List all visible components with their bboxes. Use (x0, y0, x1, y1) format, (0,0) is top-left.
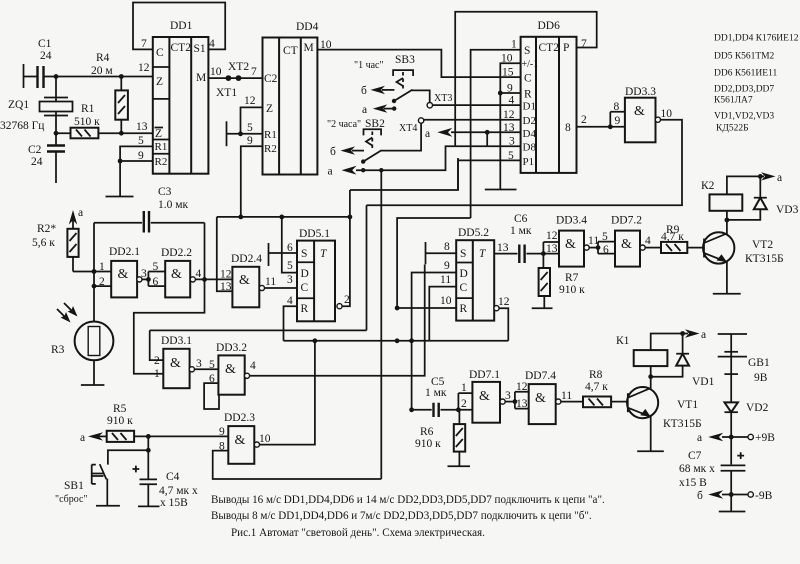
svg-text:5,6 к: 5,6 к (32, 237, 55, 249)
NAND gate DD7.1 inputs tied (456, 369, 500, 423)
svg-text:9: 9 (219, 426, 225, 438)
SB3 common wire to XT3 (412, 90, 430, 102)
DD1 label and feedback loop pin7-pin4 (133, 3, 225, 51)
DD4 Z pin 12 wire (241, 107, 263, 133)
svg-text:"1 час": "1 час" (354, 60, 384, 71)
XT4 to DD6 D2 wire (424, 119, 521, 121)
DD2.3 input 8 wire from long y479 line (213, 451, 382, 479)
svg-text:DD2,DD3,DD7: DD2,DD3,DD7 (714, 85, 774, 95)
DD5.1 output 2 wire up to H1 (337, 190, 350, 309)
svg-text:11: 11 (561, 390, 572, 402)
svg-text:КД522Б: КД522Б (716, 124, 749, 134)
svg-text:&: & (235, 433, 246, 448)
ground under VT1 (637, 450, 664, 452)
DD3.4 output to DD7.2 (584, 235, 600, 250)
svg-text:1: 1 (99, 261, 105, 273)
wire from y341 down to C5 node (409, 341, 414, 412)
svg-text:S: S (460, 248, 466, 260)
svg-text:R1: R1 (264, 129, 277, 141)
resistor R2* 5.6k with net a arrow (32, 207, 83, 272)
svg-text:4: 4 (196, 268, 202, 280)
svg-text:9: 9 (247, 135, 253, 147)
svg-text:D: D (460, 268, 468, 280)
svg-text:C6: C6 (514, 213, 528, 225)
svg-text:4: 4 (645, 235, 651, 247)
svg-text:C2: C2 (264, 73, 278, 85)
ground under R7 (532, 307, 553, 309)
svg-text:1: 1 (461, 382, 467, 394)
IC DD4 K176IE12 (244, 21, 319, 175)
svg-text:R1: R1 (155, 141, 168, 153)
svg-text:&: & (479, 389, 490, 404)
DD1 pin 13 wire label (136, 121, 148, 133)
svg-text:1 мк: 1 мк (425, 387, 447, 399)
relay K2 (701, 176, 760, 222)
svg-text:13: 13 (516, 398, 528, 410)
svg-text:DD5 К561ТМ2: DD5 К561ТМ2 (714, 52, 775, 62)
R5 net a arrow (80, 432, 107, 444)
diode VD1 (651, 334, 715, 389)
svg-text:SB2: SB2 (365, 118, 385, 130)
svg-text:DD3.4: DD3.4 (556, 215, 587, 227)
net wire from a line down to DD2.3 pin8 line (379, 168, 383, 479)
bottom rail end bar (719, 495, 746, 512)
svg-text:VT2: VT2 (752, 239, 773, 251)
svg-text:VT1: VT1 (677, 399, 698, 411)
terminal XT4 (399, 118, 424, 134)
svg-text:К2: К2 (701, 180, 715, 192)
svg-text:910 к: 910 к (559, 284, 585, 296)
NAND gate DD2.1 (73, 246, 140, 297)
SB3 terminal a arrow (362, 104, 396, 116)
svg-text:12: 12 (220, 269, 232, 281)
svg-text:4: 4 (250, 360, 256, 372)
NAND gate DD2.3 (219, 412, 255, 464)
svg-text:XT1: XT1 (216, 87, 237, 99)
ground under R3 (81, 384, 105, 386)
svg-text:R: R (524, 89, 532, 101)
svg-text:DD5.1: DD5.1 (299, 228, 330, 240)
wire C3-DD2.2out down to DD3.1 input 1 (134, 223, 205, 374)
svg-text:CT2: CT2 (539, 42, 560, 54)
svg-text:1: 1 (154, 368, 160, 380)
svg-text:Рис.1 Автомат "световой день".: Рис.1 Автомат "световой день". Схема эле… (231, 527, 485, 539)
IC DD1 K176IE12 (153, 37, 209, 174)
svg-text:-9В: -9В (755, 490, 773, 502)
capacitor C5 1uF (412, 376, 459, 417)
svg-text:1.0 мк: 1.0 мк (158, 199, 189, 211)
svg-text:4: 4 (209, 38, 215, 50)
DD6 output 8 wire to DD3.3 (577, 112, 625, 129)
svg-text:2: 2 (99, 276, 105, 288)
svg-text:5: 5 (209, 359, 215, 371)
DD6 D8 pin 3 wire (455, 145, 521, 147)
svg-text:SB3: SB3 (395, 54, 415, 66)
svg-text:DD1: DD1 (170, 20, 193, 32)
svg-text:R2: R2 (155, 156, 168, 168)
svg-text:13: 13 (546, 243, 558, 255)
svg-text:4,7 к: 4,7 к (661, 231, 684, 243)
svg-text:7: 7 (141, 38, 147, 50)
svg-text:К561ЛА7: К561ЛА7 (714, 96, 753, 106)
svg-text:R5: R5 (113, 403, 127, 415)
svg-text:5: 5 (287, 260, 293, 272)
svg-text:C: C (460, 282, 468, 294)
pushbutton SB3 "1 час" (354, 54, 415, 103)
svg-text:CT2: CT2 (171, 42, 192, 54)
DD2.4 output to DD5.1 C (259, 276, 297, 291)
svg-text:SB1: SB1 (64, 480, 84, 492)
capacitor C6 1uF (510, 213, 543, 263)
svg-text:5: 5 (247, 122, 253, 134)
svg-text:&: & (535, 391, 546, 406)
svg-text:12: 12 (244, 95, 256, 107)
NAND gate DD2.4 (220, 253, 262, 307)
svg-text:DD3.3: DD3.3 (625, 86, 656, 98)
DD6 P1 pin 5 wire (458, 160, 521, 190)
svg-text:9В: 9В (754, 372, 768, 384)
svg-text:а: а (777, 172, 782, 184)
ground under C4 (138, 505, 160, 507)
svg-text:DD6 К561ИЕ11: DD6 К561ИЕ11 (714, 69, 777, 79)
svg-text:&: & (171, 267, 182, 282)
svg-text:7: 7 (251, 66, 257, 78)
svg-text:Z: Z (156, 76, 163, 88)
svg-text:10: 10 (320, 39, 332, 51)
svg-text:2: 2 (344, 294, 350, 306)
svg-text:4: 4 (287, 295, 293, 307)
svg-text:Выводы 16 м/с DD1,DD4,DD6 и 14: Выводы 16 м/с DD1,DD4,DD6 и 14 м/с DD2,D… (211, 494, 605, 506)
DD5.2 S pin 8 stub terminal (426, 242, 457, 264)
svg-text:+9В: +9В (755, 432, 775, 444)
svg-text:х15 В: х15 В (679, 477, 707, 489)
terminal XT3 (427, 93, 452, 108)
svg-text:C: C (156, 47, 164, 59)
DD2.4 input 13 wire from node A line (217, 217, 233, 291)
svg-text:&: & (170, 356, 181, 371)
svg-text:11: 11 (265, 276, 276, 288)
svg-text:2: 2 (581, 114, 587, 126)
svg-text:13: 13 (136, 121, 148, 133)
pushbutton SB1 сброс (55, 448, 151, 506)
DD5.2 output 13 to C6 (494, 242, 517, 254)
svg-text:8: 8 (565, 122, 571, 134)
svg-text:DD2.2: DD2.2 (161, 247, 192, 259)
DD6 P output loop to D8 line (455, 12, 597, 147)
parts list text block (714, 34, 799, 134)
svg-text:а: а (425, 128, 430, 140)
svg-text:&: & (565, 237, 576, 252)
svg-text:R3: R3 (51, 344, 65, 356)
IC DD6 K561IE11 (501, 20, 587, 173)
terminal XT1 (216, 75, 241, 99)
wire DD3.3out H2 down to y330 line (366, 205, 368, 330)
svg-text:DD4: DD4 (296, 21, 319, 33)
ground under VT2 (713, 293, 741, 295)
svg-text:4: 4 (509, 95, 515, 107)
C3 left wire down to DD2.1 input node (92, 223, 97, 322)
capacitor C4 4.7uF electrolytic (133, 436, 198, 509)
transistor VT1 KT315B (627, 377, 702, 452)
svg-text:ХТ3: ХТ3 (434, 93, 452, 104)
DD5.2 output 12 wire to y341 line (494, 296, 510, 341)
relay K1 (616, 334, 683, 380)
DD7.2 output to R9 (640, 235, 661, 250)
resistor R9 4.7k (661, 224, 704, 253)
caption text (211, 494, 605, 539)
DD6 +/-1 and R pins to ground (498, 63, 521, 189)
ground under DD6 (485, 189, 517, 191)
svg-text:х 15В: х 15В (160, 497, 188, 509)
svg-text:VD2: VD2 (746, 402, 769, 414)
svg-text:1 мк: 1 мк (510, 225, 532, 237)
XT4 down wire to SB2 common (381, 123, 421, 150)
svg-text:&: & (239, 273, 250, 288)
node A horizontal line (217, 215, 352, 220)
NAND gate DD7.2 inputs tied (598, 215, 642, 267)
NAND gate DD2.2 inputs tied (148, 247, 192, 297)
DD6 D4 to D8 tie wire (486, 132, 488, 146)
DD1 M output pin 10 wire with XT2 XT1 jumper (208, 66, 263, 78)
svg-text:DD7.2: DD7.2 (611, 215, 642, 227)
DD7.1 output to DD7.4 (500, 390, 517, 404)
svg-text:б: б (697, 490, 703, 502)
resistor R5 910k (107, 403, 134, 442)
svg-text:б: б (361, 85, 367, 97)
svg-text:C3: C3 (158, 186, 172, 198)
DD4 R1 pin 5 wire and stub terminal (227, 121, 263, 146)
svg-text:DD2.1: DD2.1 (109, 246, 140, 258)
svg-text:3: 3 (141, 268, 147, 280)
R5 to DD2.3 pin9 wire (134, 434, 228, 439)
svg-text:12: 12 (546, 230, 558, 242)
svg-text:К1: К1 (616, 335, 630, 347)
svg-text:+/-1: +/-1 (522, 59, 539, 70)
XT3 to DD6 D1 wire (433, 104, 521, 106)
svg-text:DD3.1: DD3.1 (161, 335, 192, 347)
svg-text:&: & (634, 104, 645, 119)
terminal -9V with net b arrow (697, 490, 773, 502)
DD1 pins 5,9 reset wires to ground (118, 135, 153, 196)
resistor R7 910k (539, 254, 586, 309)
svg-text:а: а (78, 207, 83, 219)
diode VD2 (725, 402, 769, 437)
SB3 terminal b arrow (361, 85, 394, 97)
ground under DD1 (106, 196, 134, 198)
svg-text:D8: D8 (523, 142, 537, 154)
resistor R6 910k (415, 410, 465, 467)
svg-text:4,7 мк х: 4,7 мк х (159, 485, 198, 497)
DD5.2 D pin 9 wire down to C5 net (412, 273, 457, 341)
svg-text:10: 10 (210, 66, 222, 78)
diode VD3 (727, 176, 799, 220)
DD3.2 output long wire to DD5.2 S stub (244, 265, 424, 379)
resistor R8 4.7k (583, 369, 628, 407)
svg-text:11: 11 (440, 274, 451, 286)
DD5.1 D pin 5 wire from node A (282, 217, 297, 273)
capacitor C1 (24, 38, 57, 88)
svg-text:DD7.4: DD7.4 (525, 370, 556, 382)
NAND gate DD3.3 (614, 86, 673, 142)
svg-text:10: 10 (440, 295, 452, 307)
svg-text:R: R (301, 303, 309, 315)
svg-text:а: а (697, 432, 702, 444)
K2 net a arrow (758, 172, 782, 184)
svg-text:5: 5 (153, 261, 159, 273)
svg-text:9: 9 (444, 260, 450, 272)
capacitor C3 1.0uF (94, 186, 205, 233)
wire H3 DD6 S to DD5.2 R net (397, 218, 471, 308)
svg-text:Z: Z (155, 128, 162, 140)
svg-text:CT: CT (283, 45, 298, 57)
svg-text:3: 3 (505, 390, 511, 402)
svg-text:D: D (301, 268, 309, 280)
svg-text:C: C (524, 73, 532, 85)
flip-flop DD5.2 (440, 227, 494, 321)
svg-text:D2: D2 (523, 115, 536, 127)
NAND gate DD7.4 inputs tied (515, 370, 556, 424)
svg-text:б: б (330, 146, 336, 158)
DD3.1 output to DD3.2 (189, 358, 218, 372)
svg-text:R6: R6 (420, 426, 434, 438)
DD2.1 output wire to DD2.2 (137, 268, 151, 282)
svg-text:6: 6 (153, 276, 159, 288)
svg-text:C2: C2 (28, 144, 42, 156)
svg-text:6: 6 (603, 244, 609, 256)
svg-text:Z: Z (266, 103, 273, 115)
capacitor C7 68uF electrolytic (679, 437, 745, 495)
svg-text:910 к: 910 к (107, 415, 133, 427)
svg-text:R1: R1 (81, 103, 95, 115)
K1 net a arrow (680, 329, 706, 341)
svg-text:DD6: DD6 (538, 20, 561, 32)
svg-text:S: S (301, 248, 307, 260)
DD2.2 output wire node (190, 268, 232, 282)
svg-text:а: а (701, 329, 706, 341)
DD5.2 C pin 11 and R pin 10 tied (395, 287, 457, 341)
svg-text:R4: R4 (96, 52, 110, 64)
DD3.3 output bubble and wire down to long line (367, 117, 683, 205)
svg-text:10: 10 (259, 433, 271, 445)
svg-text:DD5.2: DD5.2 (458, 227, 489, 239)
DD6 S pin 1 wire down (471, 50, 521, 218)
crystal ZQ1 (0, 98, 73, 134)
svg-text:R8: R8 (589, 369, 603, 381)
svg-text:4,7 к: 4,7 к (585, 381, 608, 393)
svg-text:5: 5 (602, 231, 608, 243)
terminal XT2 (226, 61, 250, 81)
svg-text:12: 12 (516, 381, 528, 393)
DD3.2 input 6 hook wire (204, 383, 219, 409)
svg-text:DD7.1: DD7.1 (469, 369, 500, 381)
capacitor C2 (28, 133, 65, 183)
svg-text:DD2.4: DD2.4 (231, 253, 262, 265)
svg-text:S1: S1 (194, 43, 206, 55)
DD1 pin 12 Z wire (138, 62, 150, 74)
svg-text:3: 3 (287, 274, 293, 286)
svg-text:910 к: 910 к (415, 438, 441, 450)
svg-text:"2 часа": "2 часа" (327, 119, 361, 130)
svg-text:2: 2 (154, 355, 160, 367)
DD6 D4 pin 13 wire with net a arrow (425, 128, 521, 140)
ground under SB1 (96, 505, 120, 507)
svg-text:а: а (362, 104, 367, 116)
svg-text:13: 13 (497, 242, 509, 254)
svg-text:DD2.3: DD2.3 (224, 412, 255, 424)
svg-text:&: & (621, 237, 632, 252)
svg-text:DD3.2: DD3.2 (216, 342, 247, 354)
svg-text:R2*: R2* (37, 223, 56, 235)
svg-text:а: а (328, 166, 333, 178)
svg-text:Выводы 8 м/с DD1,DD4,DD6 и 7м/: Выводы 8 м/с DD1,DD4,DD6 и 7м/с DD2,DD3,… (211, 510, 592, 522)
svg-text:D1: D1 (523, 101, 536, 113)
svg-text:D4: D4 (523, 128, 537, 140)
svg-text:КТ315Б: КТ315Б (663, 418, 702, 430)
DD7.4 output to R8 (556, 390, 583, 404)
svg-text:8: 8 (614, 101, 620, 113)
svg-text:2: 2 (461, 398, 467, 410)
svg-text:9: 9 (138, 150, 144, 162)
svg-text:VD1,VD2,VD3: VD1,VD2,VD3 (714, 112, 774, 122)
svg-text:ХТ4: ХТ4 (399, 123, 417, 134)
NAND gate DD3.1 (154, 335, 192, 388)
svg-text:P1: P1 (523, 156, 535, 168)
svg-text:C: C (301, 282, 309, 294)
svg-text:12: 12 (138, 62, 150, 74)
svg-text:510 к: 510 к (74, 116, 100, 128)
DD3.1 input 2 wire up to y330 line (150, 330, 164, 360)
flip-flop DD5.1 (287, 228, 335, 321)
DD4 M output pin 10 to DD6 C (317, 39, 520, 77)
pushbutton SB2 "2 часа" (327, 118, 385, 164)
svg-text:24: 24 (31, 156, 43, 168)
svg-text:S: S (524, 45, 530, 57)
svg-text:9: 9 (615, 115, 621, 127)
svg-text:DD1,DD4 К176ИЕ12: DD1,DD4 К176ИЕ12 (714, 34, 799, 44)
battery GB1 (718, 334, 770, 402)
svg-text:8: 8 (444, 241, 450, 253)
NAND gate DD3.2 (209, 342, 247, 395)
svg-text:&: & (225, 362, 236, 377)
photoresistor R3 (51, 303, 113, 385)
svg-text:12: 12 (503, 109, 515, 121)
svg-text:5: 5 (138, 135, 144, 147)
svg-text:P: P (563, 42, 569, 54)
svg-text:M: M (304, 42, 314, 54)
DD2.3 output wire up to y341 line (254, 341, 315, 447)
svg-text:3: 3 (196, 358, 202, 370)
svg-text:10: 10 (661, 108, 673, 120)
D8 staircase wire to net a arrow and SB2 contact (328, 146, 455, 177)
ground under R6 (448, 465, 471, 467)
svg-text:"сброс": "сброс" (55, 494, 88, 505)
svg-text:ZQ1: ZQ1 (8, 99, 29, 111)
svg-text:XT2: XT2 (228, 61, 249, 73)
transistor VT2 KT315B (703, 220, 784, 294)
svg-text:КТ315Б: КТ315Б (745, 253, 784, 265)
svg-text:24: 24 (40, 50, 52, 62)
svg-text:VD3: VD3 (776, 204, 799, 216)
svg-text:R7: R7 (565, 272, 579, 284)
svg-text:C7: C7 (688, 450, 702, 462)
wire node C1-R4-Z (54, 74, 153, 97)
DD5.1 R pin 4 wire down to net line (284, 306, 298, 341)
svg-text:M: M (196, 72, 206, 84)
svg-text:&: & (118, 267, 129, 282)
svg-text:32768 Гц: 32768 Гц (0, 120, 44, 132)
svg-text:C1: C1 (38, 38, 52, 50)
svg-text:R: R (460, 303, 468, 315)
